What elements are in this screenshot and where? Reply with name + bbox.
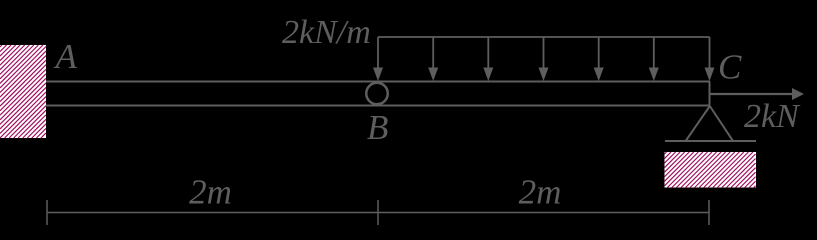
load arrow 6	[649, 37, 659, 81]
beam top line	[46, 81, 710, 83]
load arrow 4	[539, 37, 549, 81]
svg-text:2kN/m: 2kN/m	[282, 14, 371, 51]
load arrow 3	[483, 37, 493, 81]
svg-text:C: C	[718, 48, 742, 87]
distributed load top line	[378, 36, 710, 38]
load arrow 7	[705, 37, 715, 81]
load arrow 5	[594, 37, 604, 81]
dimension line	[47, 212, 709, 214]
pin support triangle at C	[686, 106, 733, 141]
ground hatched block at C	[665, 152, 757, 188]
hinge circle at B	[366, 83, 388, 105]
svg-text:B: B	[367, 108, 388, 147]
dimension tick at A	[46, 200, 48, 225]
beam right end edge at C	[709, 82, 711, 106]
load arrow 2	[428, 37, 438, 81]
load arrow 1	[373, 37, 383, 81]
svg-text:A: A	[54, 37, 78, 76]
svg-text:2kN: 2kN	[744, 98, 801, 135]
ground line under triangle	[665, 140, 756, 142]
beam bottom line	[46, 105, 710, 107]
fixed support wall at A (hatched)	[0, 45, 46, 138]
dimension tick at B	[377, 200, 379, 225]
dimension tick at C	[708, 200, 710, 225]
2kN horizontal force arrow at C	[710, 88, 804, 100]
svg-text:2m: 2m	[189, 173, 232, 212]
svg-text:2m: 2m	[519, 173, 562, 212]
